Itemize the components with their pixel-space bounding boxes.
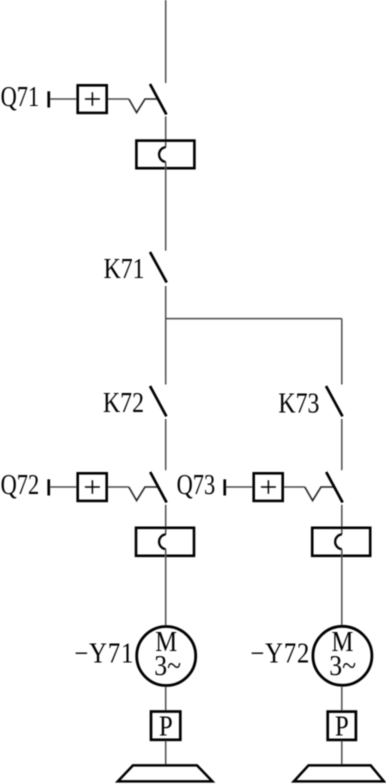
wire Q71 blade to contactor box C1 xyxy=(165,117,167,148)
Q71 breaker blade contact xyxy=(150,84,166,115)
svg-text:K73: K73 xyxy=(278,388,319,419)
wire C2 to motor Y71 xyxy=(165,549,167,625)
svg-text:Q73: Q73 xyxy=(177,470,216,501)
svg-text:−Y72: −Y72 xyxy=(250,638,310,669)
svg-text:K72: K72 xyxy=(103,387,144,418)
plus sign inside Q73 box xyxy=(261,480,276,494)
wire K71 to branch node xyxy=(165,286,167,319)
svg-text:Q71: Q71 xyxy=(1,82,40,113)
contactor C2 rectangle xyxy=(136,528,194,556)
wire Q72 box to squiggle xyxy=(108,486,129,488)
motor Y71 circle xyxy=(137,627,196,686)
wire incoming supply feeder (top) xyxy=(165,0,167,83)
wire right branch down to K73 xyxy=(341,319,343,385)
plus sign inside Q71 box xyxy=(85,92,100,106)
wire motor Y72 to pump P2 xyxy=(341,687,343,711)
Q73 operating device box with + xyxy=(254,473,283,501)
svg-text:3~: 3~ xyxy=(154,650,181,681)
wire left branch down to K72 xyxy=(165,319,167,385)
motor Y72 circle xyxy=(313,626,372,685)
branch tee horizontal wire xyxy=(166,318,342,320)
wire Q72 to contactor box C2 xyxy=(165,505,167,535)
svg-text:K71: K71 xyxy=(104,253,145,284)
K73 contact blade xyxy=(326,386,343,416)
wire K73 to Q73 xyxy=(341,419,343,470)
terminal tick of Q71 drive linkage xyxy=(47,91,50,107)
Q71 operating device box with + xyxy=(78,85,107,113)
Q72 operating device box with + xyxy=(78,473,107,501)
wire pump P2 to base xyxy=(341,741,343,765)
plus sign inside Q72 box xyxy=(85,480,100,494)
wire Q73 tick to + box xyxy=(226,486,252,488)
wire motor Y71 to pump P1 xyxy=(165,687,167,711)
Q72 trip linkage V notch xyxy=(129,487,159,501)
terminal tick of Q73 xyxy=(223,479,226,495)
Q71 trip linkage V notch xyxy=(129,99,159,113)
K71 contact blade xyxy=(150,252,167,283)
svg-text:Q72: Q72 xyxy=(1,470,40,501)
contactor C2 semicircle contact xyxy=(159,534,166,549)
pump P1 box xyxy=(151,712,180,740)
wire Q73 to contactor box C3 xyxy=(341,505,343,535)
wire Q71 box to trip squiggle xyxy=(108,98,129,100)
wire Q73 box to squiggle xyxy=(284,486,305,488)
contactor C1 semicircle contact xyxy=(159,147,166,162)
K72 contact blade xyxy=(150,386,166,416)
contactor C3 semicircle contact xyxy=(335,534,342,549)
contactor C3 rectangle xyxy=(312,528,370,556)
base plinth trapezoid right xyxy=(294,765,384,781)
contactor C1 rectangle xyxy=(136,141,194,169)
svg-text:P: P xyxy=(159,711,173,742)
wire K72 to Q72 xyxy=(165,419,167,470)
Q72 breaker blade contact xyxy=(150,472,166,503)
svg-text:−Y71: −Y71 xyxy=(74,638,134,669)
terminal tick of Q72 xyxy=(47,479,50,495)
wire C3 to motor Y72 xyxy=(341,549,343,625)
wire Q71 tick to + box xyxy=(50,98,76,100)
wire Q72 tick to + box xyxy=(50,486,76,488)
Q73 breaker blade contact xyxy=(326,472,342,503)
svg-text:P: P xyxy=(335,711,349,742)
Q73 trip linkage V notch xyxy=(305,487,334,501)
wire C1 to K71 xyxy=(165,162,167,251)
pump P2 box xyxy=(328,712,356,740)
svg-text:3~: 3~ xyxy=(329,650,356,681)
base plinth trapezoid left xyxy=(118,765,213,781)
wire pump P1 to base xyxy=(165,741,167,765)
